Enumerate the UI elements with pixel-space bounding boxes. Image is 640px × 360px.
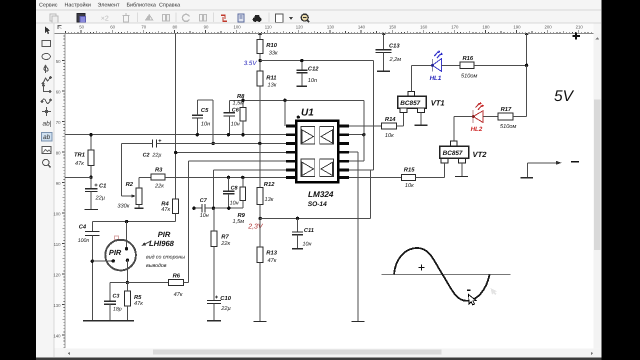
svg-text:3.5V: 3.5V (244, 60, 258, 67)
ground C11 (292, 248, 303, 250)
svg-text:140: 140 (53, 333, 61, 338)
wire VT2 base down (444, 163, 446, 177)
svg-text:C1: C1 (99, 182, 106, 189)
svg-text:2,2м: 2,2м (389, 57, 402, 63)
wire R6 to pin5 vertical (183, 282, 188, 284)
svg-text:170: 170 (451, 25, 459, 30)
resistor R16 (460, 55, 478, 79)
power tap 5V (to R10) (258, 33, 262, 40)
capacitor C5 (192, 100, 210, 135)
junction C5 bottom on rail (196, 133, 199, 136)
junction R9 top on pin7 row (241, 176, 244, 179)
svg-text:100n: 100n (78, 238, 90, 244)
svg-text:50: 50 (56, 59, 61, 64)
svg-text:10н: 10н (303, 242, 312, 248)
wire pin4R (349, 151, 358, 153)
wire pin6R (349, 169, 373, 171)
LED HL2 (red) (473, 102, 484, 123)
wire PIR node left (110, 282, 127, 284)
wire pin5 row (189, 160, 286, 162)
svg-text:110: 110 (54, 242, 61, 247)
capacitor C12 (296, 61, 319, 86)
svg-text:18p: 18p (113, 307, 122, 313)
junction TR1 top (89, 133, 92, 136)
svg-text:190: 190 (513, 25, 521, 30)
svg-text:HL1: HL1 (430, 75, 442, 82)
wire VT1 base down (402, 113, 404, 127)
svg-text:HL2: HL2 (471, 126, 483, 133)
ground VT2 (455, 176, 468, 178)
svg-text:47к: 47к (161, 207, 170, 213)
wire R17 to 5V node (513, 116, 526, 118)
svg-text:5V: 5V (554, 88, 575, 105)
svg-text:510ом: 510ом (500, 124, 516, 130)
label U1 (297, 107, 315, 118)
junction C8 bottom (227, 207, 230, 210)
svg-text:60: 60 (110, 25, 115, 30)
svg-text:R6: R6 (173, 273, 181, 280)
transistor VT2 BC857 (440, 141, 469, 163)
ground C12 (297, 85, 308, 87)
svg-text:C13: C13 (389, 42, 400, 49)
wire down to R17 row (526, 65, 528, 116)
junction pin1 drop (283, 99, 286, 102)
wire HL1 to R16 (441, 64, 460, 66)
svg-text:U1: U1 (301, 107, 314, 118)
junction PIR output node (126, 281, 129, 284)
svg-text:22к: 22к (154, 184, 164, 190)
svg-text:BC857: BC857 (400, 100, 420, 107)
wire R2 to R3 (139, 176, 151, 178)
wire R11 to pin3 row (259, 86, 261, 143)
terminal HL1 anode (431, 64, 434, 67)
svg-text:+: + (94, 183, 98, 189)
wire rail to TR1 (90, 135, 92, 150)
label LM324 / SO-14 (308, 190, 334, 208)
wire pin6 to feedback node (212, 170, 214, 208)
wire 2.3V to R13 (259, 218, 261, 247)
svg-text:R7: R7 (221, 235, 229, 241)
svg-text:1,5м: 1,5м (233, 219, 245, 225)
wire R11/R12 vertical (259, 143, 261, 187)
svg-text:PIR: PIR (158, 230, 171, 239)
wire R10 to 3.5V node (259, 54, 261, 72)
wire to HL1 (411, 64, 432, 66)
wire 3.5V rail (260, 60, 373, 62)
junction PIR left pin branch (91, 260, 94, 263)
svg-text:Сервис: Сервис (39, 3, 58, 9)
wire R13 to ground (259, 263, 261, 321)
wire pin4 row (176, 152, 286, 154)
svg-text:90: 90 (56, 181, 61, 186)
wire R4 bottom lead (175, 214, 177, 222)
wire C2 left (122, 142, 153, 144)
junction C12 top on 3.5V rail (300, 59, 303, 62)
origin marker cross (572, 32, 580, 39)
power tap 5V (to C13) (382, 33, 386, 50)
capacitor C11 (292, 218, 314, 248)
wire feedback node row (205, 207, 243, 209)
wire pin5R (349, 160, 364, 162)
junction R8 bottom on rail (241, 133, 244, 136)
junction C11 top (296, 217, 299, 220)
wire R9 top lead (242, 177, 244, 186)
ground C10 (207, 320, 221, 322)
svg-text:R5: R5 (134, 295, 142, 301)
junction 3.5V node (259, 59, 262, 62)
svg-text:SO-14: SO-14 (308, 201, 327, 208)
wire TR1 to C1 (90, 165, 92, 177)
pin PIR left (112, 259, 115, 262)
svg-text:10н: 10н (230, 201, 239, 207)
wire pin4R to ground (357, 152, 359, 321)
ground C1 (84, 208, 98, 210)
svg-text:47к: 47к (268, 258, 277, 264)
svg-text:47к: 47к (75, 161, 84, 167)
svg-text:C10: C10 (220, 295, 231, 302)
wire R12 to 2.3V node (259, 204, 261, 218)
resistor R11 (257, 71, 277, 88)
wire VT1 collector up (410, 65, 412, 91)
svg-text:200: 200 (545, 25, 553, 30)
label PIR view note (146, 254, 185, 269)
pin PIR bottom (126, 259, 129, 262)
svg-text:R13: R13 (266, 250, 277, 257)
resistor R8 (233, 93, 246, 121)
svg-text:R2: R2 (126, 181, 134, 188)
svg-text:2,3V: 2,3V (247, 224, 264, 231)
svg-text:C2: C2 (143, 152, 150, 158)
capacitor C2 (polarized) (143, 139, 163, 159)
svg-text:22µ: 22µ (151, 152, 161, 158)
svg-text:R15: R15 (404, 167, 415, 173)
svg-text:100: 100 (53, 211, 61, 216)
svg-text:330к: 330к (117, 204, 129, 210)
op-amp U1 LM324 (286, 121, 349, 183)
svg-text:R11: R11 (266, 75, 276, 81)
junction 2.3V node (259, 217, 262, 220)
svg-text:47к: 47к (174, 292, 183, 298)
svg-text:Элемент: Элемент (98, 3, 121, 9)
sine wave sketch (381, 248, 510, 301)
svg-text:70: 70 (56, 120, 61, 125)
svg-text:110: 110 (265, 25, 272, 30)
resistor R9 (233, 187, 246, 225)
wire 3.5V down to pin 6 row (372, 61, 374, 170)
svg-text:140: 140 (358, 25, 366, 30)
svg-text:180: 180 (482, 25, 490, 30)
svg-text:80: 80 (56, 150, 61, 155)
transistor VT1 BC857 (398, 92, 427, 113)
svg-text:R16: R16 (463, 55, 474, 62)
ground pin4R (351, 320, 364, 322)
capacitor C3 (104, 293, 122, 320)
svg-text:22µ: 22µ (95, 196, 105, 202)
wire to HL2 (454, 116, 473, 118)
svg-text:150: 150 (389, 25, 397, 30)
capacitor C1 (polarized) (85, 177, 107, 209)
wire pin7 row (165, 176, 286, 178)
wire left rail 2 (65, 176, 91, 178)
svg-text:Настройки: Настройки (65, 3, 91, 9)
svg-text:+: + (215, 295, 219, 301)
svg-text:VT1: VT1 (431, 98, 445, 107)
wire pin2 rail (65, 134, 286, 136)
svg-text:10к: 10к (405, 183, 414, 189)
svg-text:выводов: выводов (146, 263, 167, 269)
wire R16 to 5V node (474, 64, 527, 66)
wire VT2 collector up (453, 117, 455, 142)
svg-text:LHI968: LHI968 (149, 239, 175, 248)
svg-text:70: 70 (141, 25, 146, 30)
svg-text:13к: 13к (268, 82, 277, 88)
svg-text:10n: 10n (308, 78, 317, 84)
wire pin2R (349, 134, 364, 136)
ground R2 (135, 207, 144, 209)
wire drop to pin 1 (284, 100, 286, 126)
PIR sensor LHI968 (105, 236, 136, 271)
wire R7 top lead (213, 208, 215, 231)
svg-text:130: 130 (327, 25, 335, 30)
svg-text:LM324: LM324 (308, 190, 334, 199)
svg-text:22к: 22к (220, 241, 230, 247)
svg-text:130: 130 (53, 303, 61, 308)
svg-text:C12: C12 (308, 65, 319, 72)
svg-text:ab|: ab| (43, 121, 52, 128)
resistor R14 (382, 117, 397, 139)
resistor TR1 (74, 150, 94, 167)
svg-text:C6: C6 (232, 107, 240, 113)
junction C6 bottom on rail (227, 133, 230, 136)
capacitor C13 (376, 42, 402, 70)
resistor R4 (161, 199, 178, 214)
svg-text:50: 50 (79, 25, 84, 30)
capacitor C7 (194, 198, 209, 219)
wire HL2 to R17 (483, 116, 498, 118)
wire pin5/R6 vertical (188, 161, 190, 282)
pin PIR top (125, 247, 128, 250)
wire R5 top lead (126, 283, 128, 291)
ground C13 (377, 70, 390, 72)
svg-text:160: 160 (420, 25, 428, 30)
wire R2 top (138, 177, 140, 188)
svg-text:10к: 10к (385, 133, 394, 139)
svg-text:22µ: 22µ (220, 306, 230, 312)
svg-text:VT2: VT2 (473, 150, 488, 159)
resistor R6 (169, 273, 184, 298)
svg-text:60: 60 (56, 89, 61, 94)
wire to PIR left pin (92, 260, 113, 262)
svg-text:C7: C7 (200, 198, 208, 204)
output pointer to minus (527, 161, 561, 177)
svg-text:C3: C3 (113, 293, 120, 299)
svg-text:90: 90 (204, 25, 209, 30)
wire PIR node to R6 (127, 282, 168, 284)
svg-text:R9: R9 (238, 212, 246, 219)
wire R14 to VT1 base (396, 125, 403, 127)
wire R9 bottom lead (242, 201, 244, 209)
svg-text:R17: R17 (501, 107, 512, 113)
svg-text:10н: 10н (200, 213, 209, 219)
wire pin3 row (156, 142, 285, 144)
junction pin2R on vertical (362, 133, 365, 136)
svg-text:13к: 13к (265, 197, 274, 203)
svg-text:R3: R3 (155, 167, 163, 174)
svg-text:10н: 10н (231, 121, 240, 127)
capacitor C4 (78, 222, 100, 321)
wire C2 to R2 wiper (121, 143, 123, 196)
wire VT2 emitter down (461, 163, 463, 176)
wire right vertical pin2/pin5 (363, 100, 365, 161)
svg-text:Библиотека: Библиотека (127, 3, 156, 9)
resistor R3 (151, 167, 165, 190)
wire 2.3V row (260, 217, 371, 219)
junction pin4 row on vertical (174, 151, 177, 154)
svg-text:вид со стороны: вид со стороны (146, 254, 185, 260)
ground rail bottom-left (83, 320, 134, 322)
svg-text:C8: C8 (231, 186, 238, 192)
svg-text:R14: R14 (385, 117, 396, 123)
svg-text:R12: R12 (264, 181, 275, 188)
junction PIR top pin branch (125, 220, 128, 223)
wire PIR bottom pin down (126, 260, 128, 282)
wire R8 bottom lead (242, 121, 244, 135)
junction TR1/C1 node (89, 176, 92, 179)
svg-text:120: 120 (53, 272, 61, 277)
capacitor C8 (223, 177, 239, 208)
wire pin6 row (213, 169, 285, 171)
terminal C7 left (192, 207, 195, 210)
junction R7/pin6 node (212, 207, 215, 210)
svg-text:TR1: TR1 (74, 152, 85, 158)
wire pin7R to R15 (349, 176, 401, 178)
wire R8 top lead (242, 100, 244, 107)
resistor R2 (trimmer 330k) (117, 181, 142, 210)
wire VT1 emitter down (420, 113, 422, 125)
svg-text:BC857: BC857 (443, 150, 463, 157)
resistor R13 (257, 247, 278, 264)
resistor R15 (401, 167, 415, 189)
ground VT1 (414, 124, 427, 126)
wire C5 top bar (197, 99, 213, 101)
resistor R5 (125, 291, 144, 307)
mouse cursor (469, 295, 476, 305)
wire R7 to C10 (213, 246, 215, 300)
label minus (571, 161, 579, 163)
wire to PIR top pin (126, 222, 128, 249)
junction R11 bottom on pin3 row (258, 142, 261, 145)
svg-text:510ом: 510ом (461, 73, 477, 79)
label PIR LHI968 with arrow (142, 230, 175, 248)
junction R8 top (241, 99, 244, 102)
svg-text:47к: 47к (134, 301, 143, 307)
ground output (521, 177, 534, 179)
wire R5 bottom lead (126, 306, 128, 320)
svg-text:210: 210 (576, 25, 584, 30)
wire R2 to ground (138, 204, 140, 207)
ground R13 (254, 320, 267, 322)
wire C6/R8 top net (229, 99, 363, 101)
junction R16/R17 5V node (525, 64, 528, 67)
capacitor C10 (polarized) (207, 295, 232, 320)
svg-text:100: 100 (234, 25, 242, 30)
wire down to C3 (109, 283, 111, 301)
ghost cursor (491, 288, 498, 295)
capacitor C6 (224, 100, 240, 134)
resistor R10 (257, 40, 278, 57)
junction C5 leg on pin3 row (212, 142, 215, 145)
resistor R17 (498, 107, 516, 130)
svg-text:80: 80 (173, 25, 178, 30)
wire pin1R to R14 (349, 125, 382, 127)
terminal HL2 anode (472, 115, 475, 118)
junction C8 top on pin7 row (227, 176, 230, 179)
wire C4/R4/PIR net (92, 221, 175, 223)
svg-text:C5: C5 (201, 107, 209, 114)
wire R15 to VT2 base (416, 176, 445, 178)
svg-text:PIR: PIR (109, 248, 122, 257)
svg-text:R10: R10 (266, 42, 277, 49)
svg-text:×2: ×2 (101, 15, 109, 22)
power tap 5V (to R16/R17 node) (524, 33, 528, 66)
svg-text:C11: C11 (304, 228, 314, 234)
resistor R12 (257, 181, 275, 204)
svg-text:ab: ab (43, 134, 51, 141)
svg-text:10н: 10н (201, 121, 210, 127)
resistor R7 (211, 231, 231, 247)
wire long vertical to R4 (175, 34, 177, 200)
LED HL1 (blue) (432, 50, 443, 71)
wire 2.3V up to pin6 row (370, 170, 372, 219)
svg-text:Справка: Справка (159, 3, 180, 9)
trimmer wiper arrow into R2 (122, 194, 136, 198)
svg-text:120: 120 (296, 25, 304, 30)
svg-text:C4: C4 (79, 224, 87, 231)
wire C5 right leg (212, 100, 214, 143)
svg-text:33к: 33к (269, 50, 278, 56)
